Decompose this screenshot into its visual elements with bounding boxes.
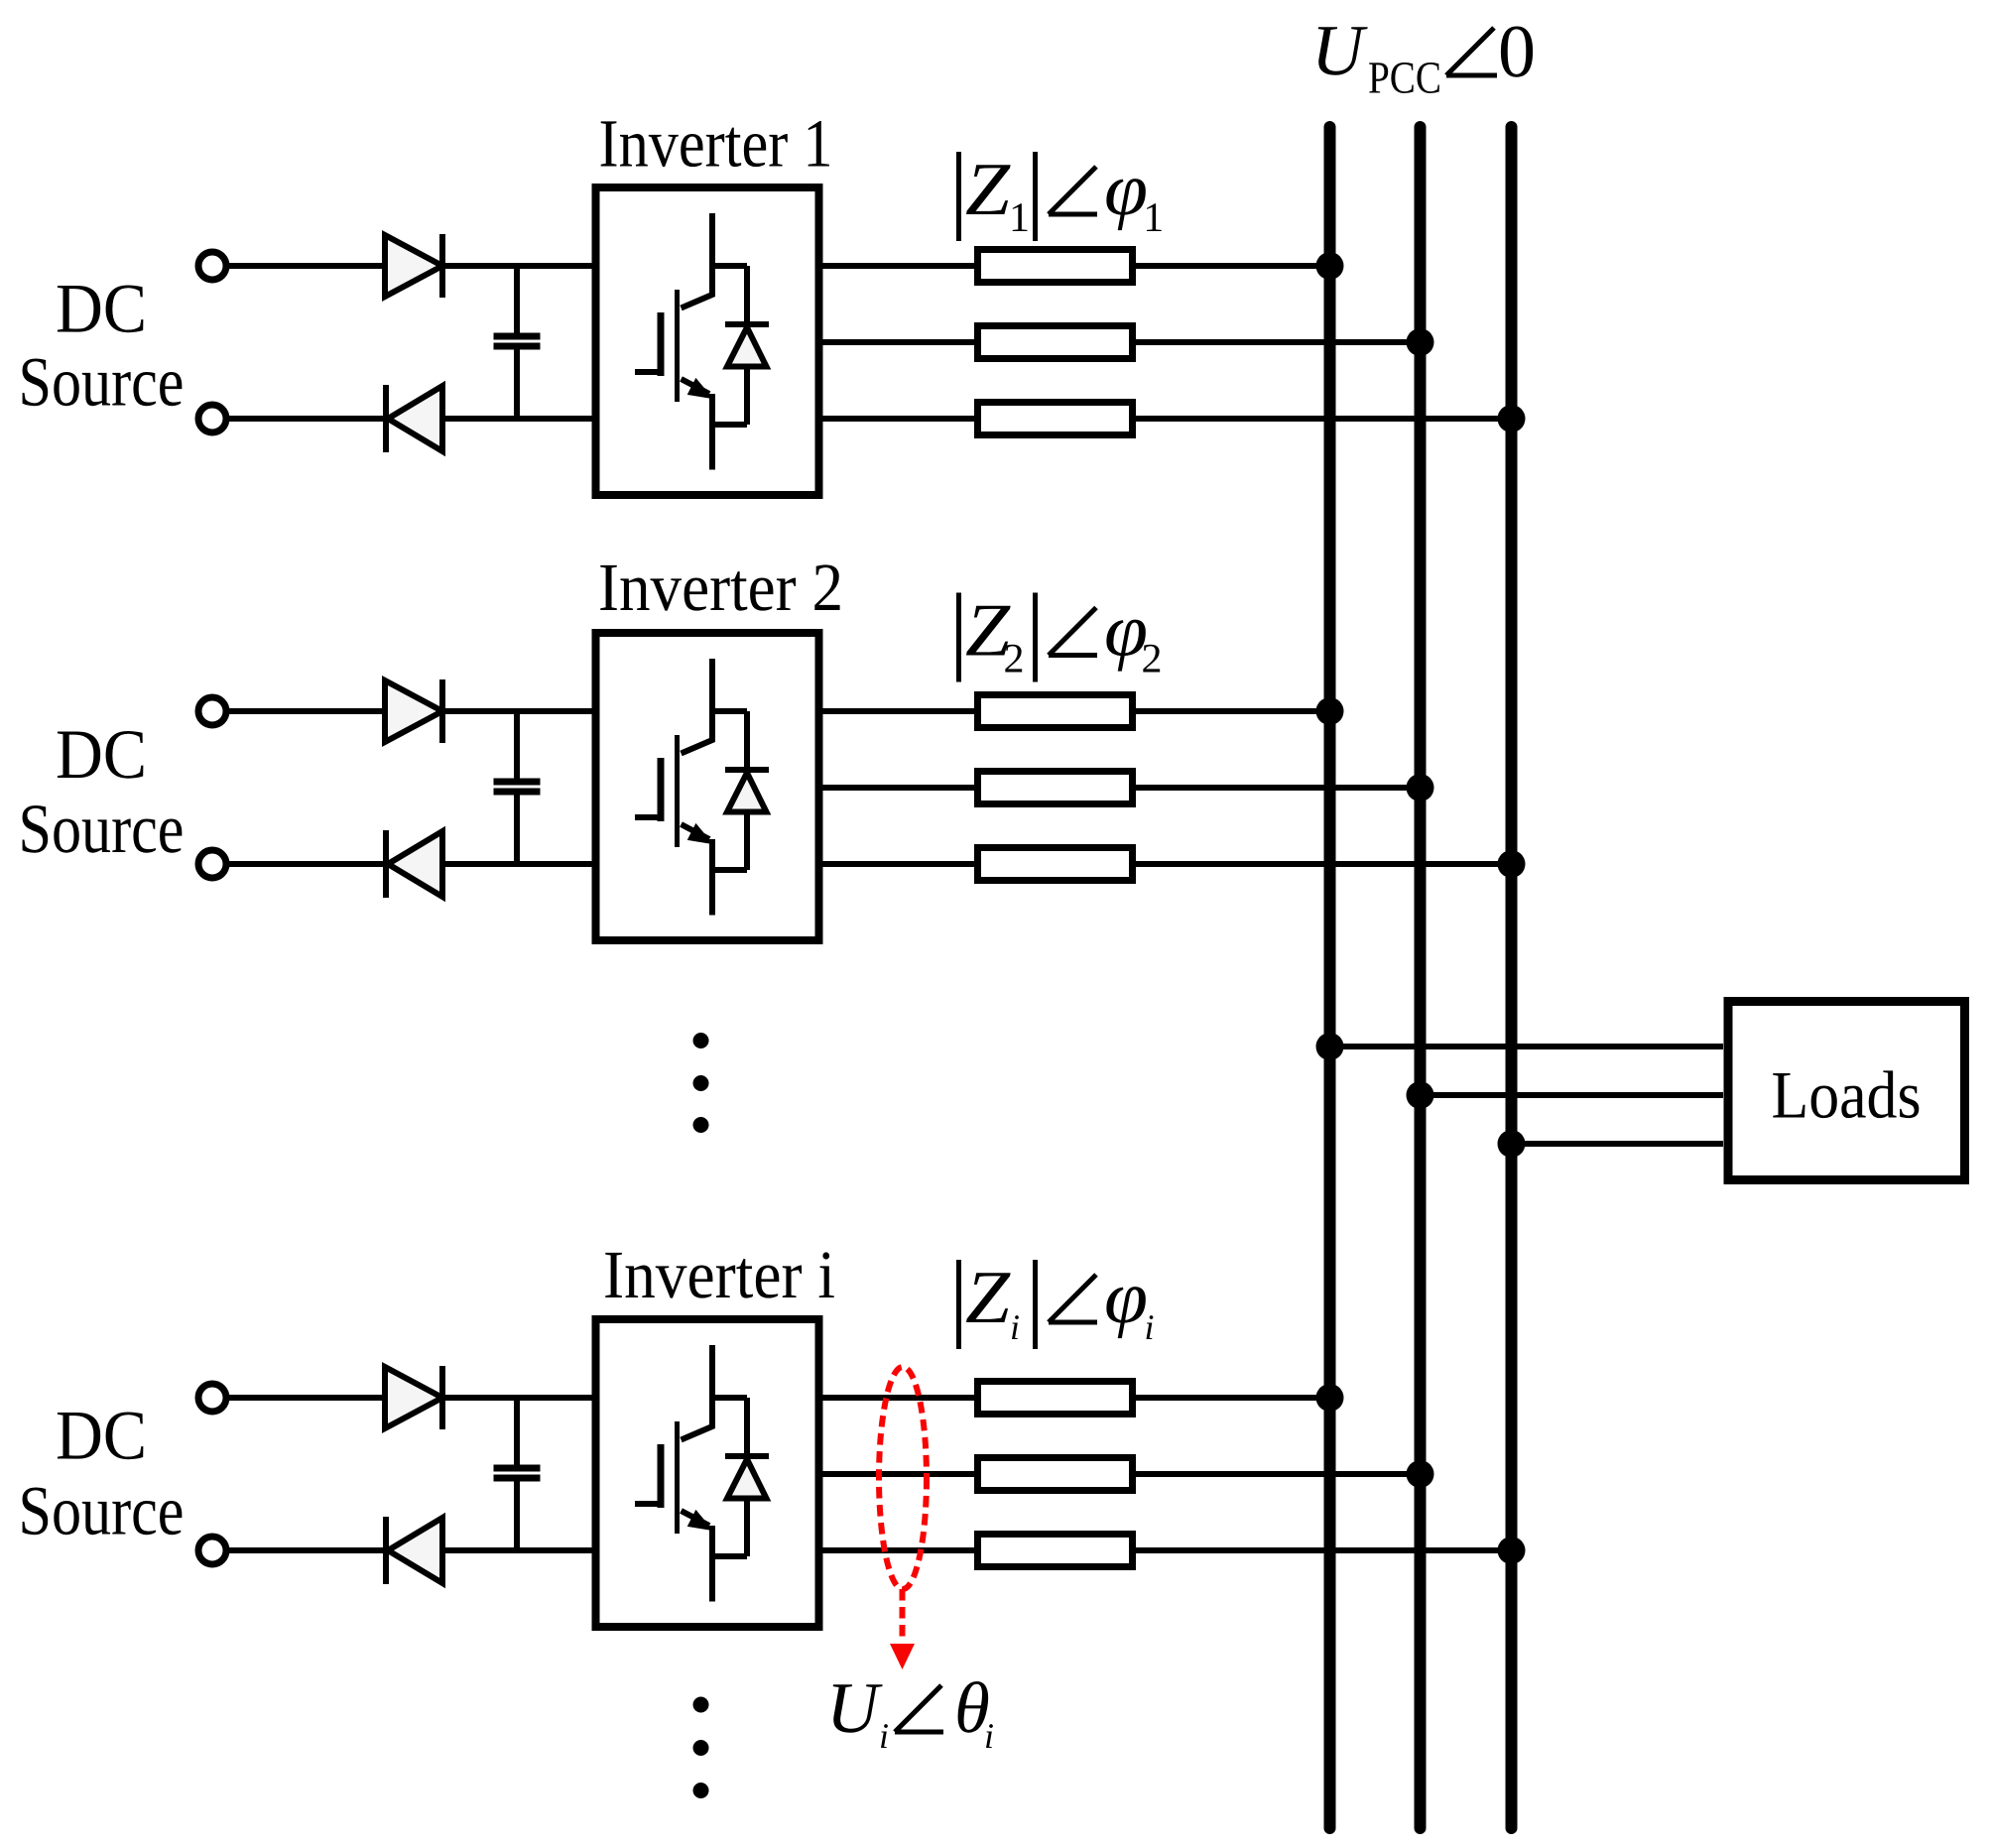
PCC bus phase b [1415, 127, 1427, 1828]
svg-text:2: 2 [1004, 637, 1025, 682]
Loads box [1728, 1002, 1965, 1180]
diode Dia (DC+ rail) [385, 1366, 442, 1429]
svg-text:φ: φ [1104, 1256, 1148, 1339]
line impedance Z2 phase-c [978, 848, 1133, 881]
svg-text:2: 2 [1142, 637, 1163, 682]
line impedance Zi phase-a [978, 1382, 1133, 1415]
line impedance Zi phase-b [978, 1458, 1133, 1491]
wire: +terminal to inverter 2 [226, 708, 596, 714]
junction dot: inverter i phase-b tap on bus b [1407, 1460, 1434, 1488]
svg-text:Z: Z [965, 148, 1011, 231]
ellipsis dots (more inverters below inverter i) [693, 1697, 709, 1799]
diode D2b (DC- rail) [386, 830, 442, 898]
impedance label |Z1| angle phi1 [959, 148, 1165, 241]
DC source label (inverter i) [19, 1398, 185, 1550]
svg-text:Inverter 2: Inverter 2 [598, 550, 843, 625]
wire: +terminal to inverter 1 [226, 263, 596, 269]
DC source terminal + (inverter i) [198, 1384, 226, 1412]
svg-text:i: i [1145, 1307, 1155, 1347]
diode Dib (DC- rail) [386, 1517, 442, 1584]
wire: bus a to Loads [1330, 1044, 1724, 1049]
svg-text:φ: φ [1104, 148, 1148, 231]
svg-text:Source: Source [19, 791, 185, 868]
svg-text:U: U [826, 1667, 883, 1748]
wire: -terminal to inverter 1 [226, 416, 596, 422]
svg-text:PCC: PCC [1368, 53, 1441, 103]
wire: bus b to Loads [1421, 1092, 1724, 1098]
wire: impedance Z2 phase-a to bus a [1136, 708, 1330, 714]
DC source terminal - (inverter 2) [198, 850, 226, 878]
inverter 1 box [596, 187, 819, 495]
wire: -terminal to inverter i [226, 1547, 596, 1553]
wire: inverter 1 phase-a output to impedance [819, 263, 975, 269]
PCC bus phase a [1324, 127, 1336, 1828]
svg-text:i: i [984, 1716, 994, 1756]
DC source label (inverter 2) [19, 716, 185, 868]
inverter 2 box [596, 633, 819, 940]
DC source terminal + (inverter 2) [198, 697, 226, 725]
node label U_i angle theta_i [826, 1667, 994, 1756]
wire: impedance Zi phase-b to bus b [1136, 1471, 1421, 1477]
DC source terminal - (inverter i) [198, 1537, 226, 1564]
capacitor C1 (DC link) [494, 266, 541, 419]
impedance label |Z2| angle phi2 [959, 589, 1163, 682]
wire: impedance Z1 phase-a to bus a [1136, 263, 1330, 269]
red dashed measurement ellipse (inverter i output) [879, 1367, 927, 1589]
wire: inverter 2 phase-b output to impedance [819, 785, 975, 791]
DC source label (inverter 1) [19, 271, 185, 422]
junction dot: inverter i phase-a tap on bus a [1316, 1384, 1344, 1412]
line impedance Z1 phase-a [978, 250, 1133, 283]
svg-text:U: U [1311, 10, 1368, 90]
junction dot: inverter 1 phase-a tap on bus a [1316, 252, 1344, 280]
wire: impedance Zi phase-a to bus a [1136, 1395, 1330, 1401]
wire: inverter i phase-c output to impedance [819, 1547, 975, 1553]
node label U_PCC angle 0 [1311, 10, 1536, 103]
svg-text:Loads: Loads [1772, 1057, 1922, 1133]
svg-text:Source: Source [19, 344, 185, 422]
junction dot: inverter 1 phase-c tap on bus c [1498, 405, 1526, 432]
svg-text:Z: Z [965, 1256, 1011, 1339]
DC source terminal - (inverter 1) [198, 405, 226, 432]
DC source terminal + (inverter 1) [198, 252, 226, 280]
wire: inverter 1 phase-c output to impedance [819, 416, 975, 422]
wire: impedance Z2 phase-b to bus b [1136, 785, 1421, 791]
ellipsis dots (more inverters between 2 and i) [693, 1033, 709, 1133]
svg-text:1: 1 [1009, 195, 1030, 241]
svg-text:DC: DC [56, 1398, 147, 1475]
line impedance Z1 phase-b [978, 326, 1133, 359]
junction dot: inverter 2 phase-c tap on bus c [1498, 850, 1526, 878]
wire: -terminal to inverter 2 [226, 861, 596, 867]
svg-text:0: 0 [1498, 10, 1536, 93]
junction dot: inverter 2 phase-a tap on bus a [1316, 697, 1344, 725]
diode D2a (DC+ rail) [385, 679, 442, 743]
line impedance Z1 phase-c [978, 403, 1133, 435]
inverter i box [596, 1319, 819, 1627]
IGBT Q1 with antiparallel diode [635, 213, 769, 470]
svg-text:Inverter 1: Inverter 1 [599, 106, 833, 182]
wire: inverter 2 phase-a output to impedance [819, 708, 975, 714]
svg-text:1: 1 [1143, 195, 1164, 241]
red dashed arrow [900, 1589, 906, 1643]
diode D1b (DC- rail) [386, 385, 442, 452]
svg-text:DC: DC [56, 271, 147, 348]
svg-text:i: i [1010, 1307, 1020, 1347]
wire: +terminal to inverter i [226, 1395, 596, 1401]
wire: impedance Z2 phase-c to bus c [1136, 861, 1512, 867]
svg-text:Source: Source [19, 1473, 185, 1550]
wire: inverter 2 phase-c output to impedance [819, 861, 975, 867]
line impedance Zi phase-c [978, 1535, 1133, 1567]
line impedance Z2 phase-b [978, 772, 1133, 804]
IGBT Qi with antiparallel diode [635, 1345, 769, 1602]
wire: bus c to Loads [1512, 1141, 1724, 1147]
junction dot: Loads tap on bus c [1498, 1130, 1526, 1158]
capacitor C2 (DC link) [494, 711, 541, 864]
PCC bus phase c [1506, 127, 1518, 1828]
wire: inverter i phase-a output to impedance [819, 1395, 975, 1401]
impedance label |Zi| angle phii [959, 1256, 1155, 1349]
diode D1a (DC+ rail) [385, 234, 442, 298]
svg-text:Inverter i: Inverter i [603, 1237, 835, 1312]
capacitor Ci (DC link) [494, 1398, 541, 1550]
junction dot: Loads tap on bus a [1316, 1033, 1344, 1060]
junction dot: inverter 2 phase-b tap on bus b [1407, 774, 1434, 801]
wire: impedance Z1 phase-c to bus c [1136, 416, 1512, 422]
wire: inverter 1 phase-b output to impedance [819, 339, 975, 345]
junction dot: inverter 1 phase-b tap on bus b [1407, 328, 1434, 356]
svg-text:i: i [879, 1716, 889, 1756]
wire: inverter i phase-b output to impedance [819, 1471, 975, 1477]
IGBT Q2 with antiparallel diode [635, 659, 769, 916]
line impedance Z2 phase-a [978, 695, 1133, 728]
wire: impedance Zi phase-c to bus c [1136, 1547, 1512, 1553]
svg-text:DC: DC [56, 716, 147, 794]
wire: impedance Z1 phase-b to bus b [1136, 339, 1421, 345]
junction dot: inverter i phase-c tap on bus c [1498, 1537, 1526, 1564]
junction dot: Loads tap on bus b [1407, 1081, 1434, 1109]
